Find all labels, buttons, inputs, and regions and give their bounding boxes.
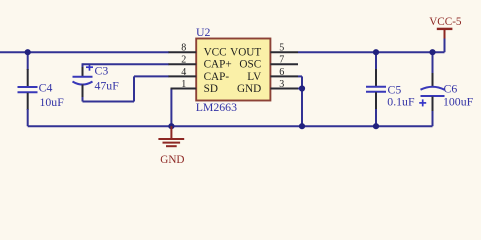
svg-text:GND: GND <box>160 154 184 166</box>
svg-text:OSC: OSC <box>239 59 261 71</box>
wire: C3 plus to pin2 <box>83 63 170 65</box>
wire: C3 minus horizontal <box>83 101 135 103</box>
pin 3 GND <box>237 79 298 95</box>
svg-text:6: 6 <box>279 67 284 78</box>
svg-text:5: 5 <box>279 43 284 54</box>
wire: LV jog <box>298 75 302 77</box>
wire: C5 bottom lead <box>375 109 377 126</box>
svg-text:CAP+: CAP+ <box>204 59 232 71</box>
svg-text:0.1uF: 0.1uF <box>387 95 415 109</box>
wire: VOUT rail <box>298 51 445 53</box>
svg-text:3: 3 <box>279 79 284 90</box>
capacitor C3 (polarized) <box>73 64 120 99</box>
wire: C4 bottom lead <box>27 109 29 126</box>
wire: GND pin jog <box>298 88 302 90</box>
svg-text:2: 2 <box>181 55 186 66</box>
junction dot pin3 <box>299 85 305 91</box>
svg-text:100uF: 100uF <box>443 95 474 109</box>
wire: bottom ground rail <box>28 125 433 127</box>
junction dot C6 top <box>429 49 435 55</box>
capacitor C4 <box>18 69 65 110</box>
junction dot SD/ground <box>168 123 174 129</box>
svg-text:SD: SD <box>204 83 218 95</box>
wire: C6 top lead <box>432 52 434 74</box>
wire: SD to ground rail <box>170 89 172 127</box>
svg-text:7: 7 <box>279 55 284 66</box>
svg-text:LM2663: LM2663 <box>196 100 237 114</box>
svg-text:VCC: VCC <box>204 47 227 59</box>
wire: C3 minus lead <box>82 97 84 102</box>
wire: LV/GND vertical <box>301 76 303 126</box>
wire: C5 top lead <box>375 52 377 70</box>
junction dot C5 top <box>373 49 379 55</box>
pin 2 CAP+ <box>169 55 232 71</box>
wire: VCC-5 riser <box>444 37 446 52</box>
svg-text:U2: U2 <box>196 25 211 39</box>
wire: C3 top corner <box>82 63 84 67</box>
wire: C4 top lead <box>27 52 29 70</box>
pin 1 SD <box>171 79 218 95</box>
svg-text:VCC-5: VCC-5 <box>429 16 462 28</box>
wire: C6 bottom lead <box>432 111 434 126</box>
pin 7 OSC <box>239 55 298 71</box>
svg-text:C6: C6 <box>444 82 458 96</box>
capacitor C6 (polarized) <box>419 73 473 112</box>
svg-text:10uF: 10uF <box>40 95 65 109</box>
pin 8 VCC <box>169 43 227 59</box>
svg-text:CAP-: CAP- <box>204 71 230 83</box>
junction dot C5 bottom <box>373 123 379 129</box>
pin 5 VOUT <box>230 43 298 59</box>
wire: VCC input top rail <box>0 51 169 53</box>
svg-text:GND: GND <box>237 83 261 95</box>
svg-text:C3: C3 <box>95 64 109 78</box>
wire: C3 minus to pin4 <box>134 75 169 77</box>
ground <box>158 126 184 166</box>
svg-text:4: 4 <box>181 67 186 78</box>
op IC U2 body <box>196 25 271 114</box>
pin 4 CAP- <box>169 67 230 83</box>
svg-text:47uF: 47uF <box>95 79 120 93</box>
wire: C3 minus vertical <box>133 76 135 101</box>
svg-text:1: 1 <box>181 79 186 90</box>
junction dot pin3 rail <box>299 123 305 129</box>
svg-text:8: 8 <box>181 43 186 54</box>
capacitor C5 <box>366 69 415 110</box>
svg-text:VOUT: VOUT <box>230 47 261 59</box>
junction dot C4 top <box>25 49 31 55</box>
power port VCC-5 <box>429 16 462 38</box>
svg-text:C4: C4 <box>39 81 53 95</box>
svg-text:LV: LV <box>247 71 261 83</box>
pin 6 LV <box>247 67 298 83</box>
